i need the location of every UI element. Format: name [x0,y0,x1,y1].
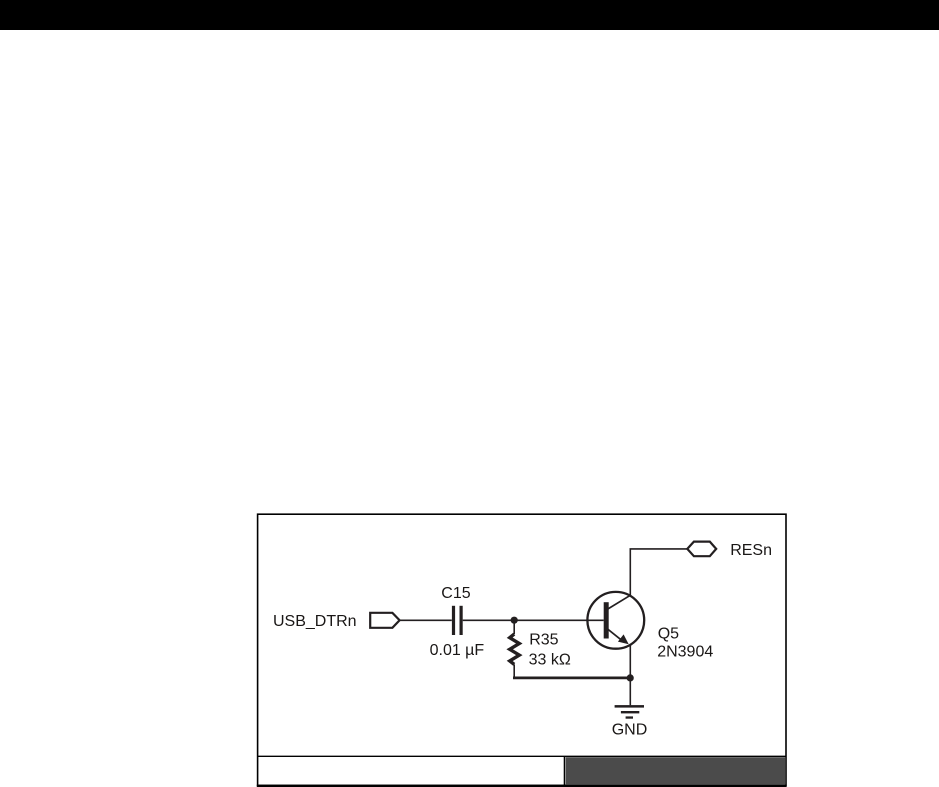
wire node A to Q5 base [514,619,604,621]
node A junction dot [511,617,518,624]
transistor Q5 emitter arrowhead [618,634,629,644]
figure footer divider line [257,755,786,757]
svg-text:USB_DTRn: USB_DTRn [273,613,357,630]
svg-text:C15: C15 [441,585,470,602]
wire collector up [629,549,631,596]
figure frame [257,514,787,787]
port USB_DTRn tag [370,613,399,628]
wire tag to C15 [400,619,452,621]
top banner bar [0,0,939,30]
wire node B to ground [629,678,631,705]
figure footer gray cell [566,757,785,785]
svg-text:R35: R35 [529,632,558,649]
svg-text:RESn: RESn [730,542,772,559]
wire node A down to R35 [513,620,515,634]
node B junction dot [627,674,634,681]
resistor R35 [510,634,520,664]
transistor Q5 emitter lead [607,629,623,641]
transistor Q5 collector lead [607,595,630,609]
capacitor C15 [452,606,463,635]
svg-text:Q5: Q5 [658,626,679,643]
svg-text:33 kΩ: 33 kΩ [529,652,571,669]
port RESn tag [687,542,716,557]
transistor Q5 circle [587,592,644,649]
svg-text:0.01 µF: 0.01 µF [430,642,485,659]
ground GND symbol [615,705,644,719]
svg-text:2N3904: 2N3904 [657,643,713,660]
wire C15 to node A [463,619,515,621]
wire R35 to node B (thick) [513,677,630,680]
figure footer separator [564,756,566,785]
transistor Q5 base bar [604,602,609,638]
wire collector to RESn tag [630,548,688,550]
svg-text:GND: GND [612,721,648,738]
wire R35 bottom [513,664,515,678]
wire emitter down to node B [629,644,631,678]
